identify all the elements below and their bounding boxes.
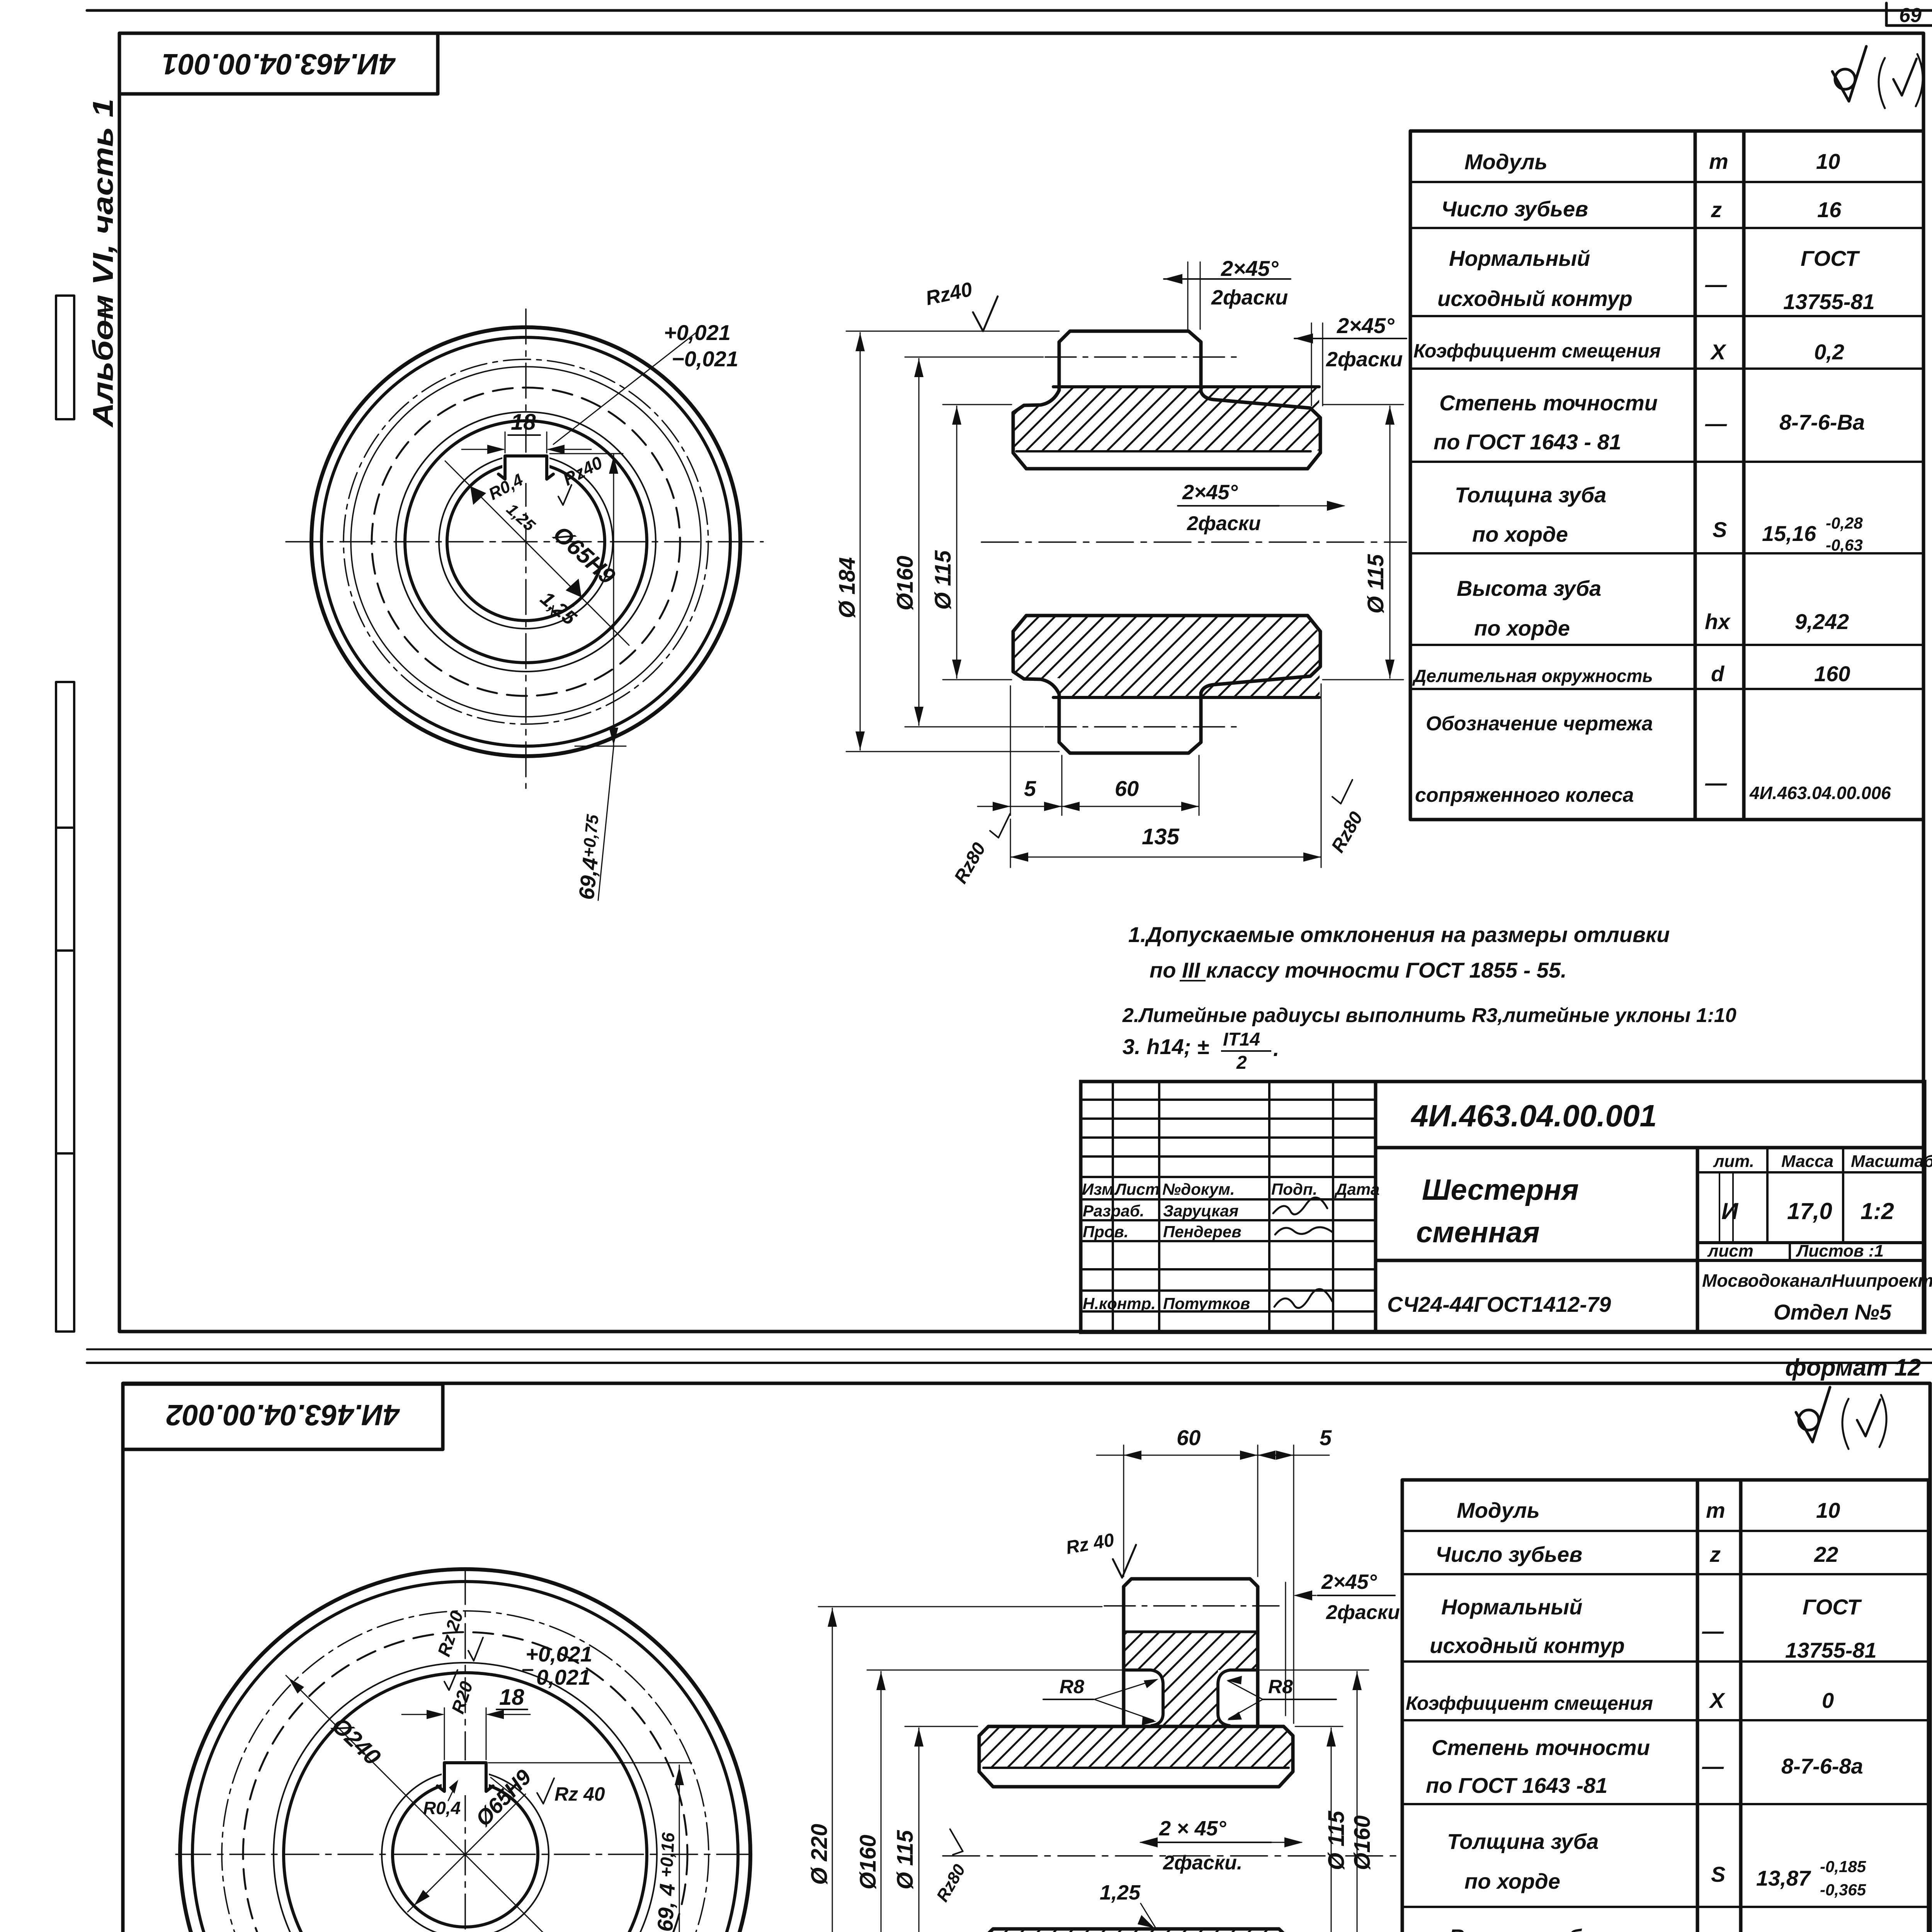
sheet1 name cell: [1376, 1259, 1697, 1262]
svg-text:z: z: [1709, 1542, 1721, 1566]
svg-text:IT14: IT14: [1223, 1029, 1260, 1050]
svg-text:m: m: [1706, 1498, 1725, 1522]
svg-text:18: 18: [511, 410, 536, 435]
gear1 tip circle inner edge: [321, 337, 730, 746]
gear1 tip circle outer: [311, 327, 740, 756]
gear1 front view horizontal centerline: [286, 541, 763, 543]
svg-text:X: X: [1710, 340, 1727, 364]
svg-text:+0,021: +0,021: [526, 1642, 592, 1666]
svg-text:Ø 115: Ø 115: [1363, 554, 1388, 614]
sheet1 left margin upper box: [56, 296, 74, 419]
gear1 section upper hatch: [1014, 388, 1319, 451]
svg-text:z: z: [1711, 197, 1722, 222]
svg-text:-0,185: -0,185: [1820, 1857, 1866, 1876]
gear1 section lower root line: [1053, 696, 1319, 699]
svg-text:Делительная окружность: Делительная окружность: [1412, 666, 1653, 686]
svg-text:Альбом VI, часть 1: Альбом VI, часть 1: [87, 99, 119, 428]
gear1 section lower outline: [1013, 616, 1320, 753]
gear2 keyway dim arrows: [402, 1714, 443, 1715]
svg-text:18: 18: [499, 1685, 524, 1710]
svg-text:2.Литейные радиусы выполнить R: 2.Литейные радиусы выполнить R3,литейные…: [1122, 1004, 1736, 1027]
svg-text:160: 160: [1814, 662, 1850, 686]
svg-text:сопряженного колеса: сопряженного колеса: [1415, 784, 1634, 806]
svg-text:−0,021: −0,021: [672, 347, 738, 371]
gear2 bore diagonal dim: [408, 1794, 526, 1912]
svg-text:5: 5: [1320, 1425, 1332, 1450]
svg-text:—: —: [1705, 272, 1727, 296]
gear1 tolerance leader: [553, 333, 696, 444]
svg-text:Коэффициент смещения: Коэффициент смещения: [1406, 1692, 1653, 1714]
svg-text:Высота зуба: Высота зуба: [1449, 1925, 1594, 1932]
svg-text:0: 0: [1822, 1688, 1834, 1713]
svg-text:m: m: [1709, 149, 1728, 173]
svg-text:60: 60: [1177, 1425, 1201, 1450]
sheet 2 frame: [123, 1383, 1930, 1932]
svg-text:hx: hx: [1705, 609, 1731, 634]
svg-text:22: 22: [1814, 1542, 1838, 1566]
svg-text:сменная: сменная: [1416, 1216, 1540, 1249]
svg-text:формат 12: формат 12: [1785, 1354, 1921, 1381]
svg-text:10: 10: [1816, 149, 1840, 173]
svg-text:+0,021: +0,021: [664, 320, 731, 345]
svg-text:135: 135: [1142, 824, 1180, 849]
sheet 1 frame: [119, 33, 1923, 1332]
sheet1 left margin box column: [56, 682, 74, 1332]
svg-text:Н.контр.: Н.контр.: [1083, 1294, 1156, 1313]
svg-text:исходный контур: исходный контур: [1430, 1633, 1625, 1658]
svg-text:ГОСТ: ГОСТ: [1801, 246, 1861, 270]
gear1 dia115 left dim: [956, 406, 957, 678]
svg-text:Подп.: Подп.: [1271, 1180, 1317, 1198]
gear1 root circle (dashed): [372, 388, 680, 696]
gear1 thin circle: [351, 367, 701, 717]
gear2 width dims 60 and 5: [1123, 1445, 1124, 1577]
svg-text:Ø160: Ø160: [855, 1835, 881, 1889]
svg-text:И: И: [1721, 1198, 1739, 1224]
sheet1 title block signature texts: [1082, 1180, 1379, 1313]
svg-text:16: 16: [1817, 197, 1842, 222]
svg-text:по III классу точности ГОСТ: по III классу точности ГОСТ 1855 - 55.: [1150, 958, 1567, 982]
svg-text:13755-81: 13755-81: [1783, 289, 1875, 314]
sheet1 parameter table grid: [1410, 131, 1923, 820]
svg-text:Ø160: Ø160: [1350, 1815, 1375, 1870]
sheet2 table symbol column: [1702, 1498, 1730, 1932]
gear2 section lower hub outline: [979, 1929, 1293, 1932]
sheet1 format caption: [87, 1349, 1932, 1350]
gear2 section axis centerline: [943, 1855, 1403, 1857]
svg-text:0,2: 0,2: [1814, 340, 1844, 364]
gear2 front view vertical centerline: [464, 1570, 466, 1932]
gear2 pitch circle (dash-dot): [222, 1611, 709, 1932]
svg-text:Масштаб: Масштаб: [1851, 1152, 1932, 1171]
svg-text:№докум.: №докум.: [1162, 1180, 1235, 1198]
svg-text:Ø 115: Ø 115: [1324, 1811, 1349, 1870]
sheet1 right part of title block: [1697, 1148, 1925, 1260]
gear1 section upper outline: [1013, 331, 1320, 469]
svg-text:1:2: 1:2: [1861, 1198, 1894, 1224]
svg-text:Модуль: Модуль: [1457, 1498, 1540, 1522]
svg-text:5: 5: [1024, 776, 1036, 801]
svg-text:Коэффициент смещения: Коэффициент смещения: [1413, 340, 1661, 362]
svg-text:по хорде: по хорде: [1474, 616, 1570, 640]
svg-text:69: 69: [1899, 4, 1922, 27]
gear2 dia220 dim: [832, 1608, 833, 1932]
svg-text:Ø 220: Ø 220: [807, 1824, 832, 1885]
svg-text:9,242: 9,242: [1795, 609, 1849, 634]
svg-text:2×45°: 2×45°: [1321, 1570, 1377, 1594]
svg-text:Пров.: Пров.: [1083, 1223, 1129, 1241]
svg-text:2 × 45°: 2 × 45°: [1159, 1817, 1226, 1840]
gear1 section lower pitch line: [1045, 726, 1238, 728]
svg-text:1,25: 1,25: [1100, 1881, 1141, 1904]
gear2 tip circle outer: [180, 1569, 750, 1932]
svg-text:Ø 115: Ø 115: [930, 550, 956, 610]
svg-text:Дата: Дата: [1334, 1180, 1379, 1198]
svg-text:Пендерев: Пендерев: [1163, 1223, 1242, 1241]
gear1 keyway outline: [498, 456, 553, 479]
svg-text:Масса: Масса: [1781, 1152, 1833, 1171]
sheet1 title block left grid verticals: [1081, 1082, 1376, 1332]
svg-text:4И.463.04.00.001: 4И.463.04.00.001: [162, 48, 396, 80]
svg-text:2×45°: 2×45°: [1337, 313, 1395, 338]
svg-text:0,021: 0,021: [536, 1665, 590, 1689]
gear1 bore circle: [447, 463, 605, 621]
gear2 dia160 right dim: [1357, 1672, 1358, 1932]
gear1 dia184 dim: [860, 333, 861, 750]
album caption underline: [104, 299, 106, 333]
sheet1 title block outer: [1081, 1082, 1925, 1332]
svg-text:-0,63: -0,63: [1826, 536, 1863, 554]
svg-text:по хорде: по хорде: [1472, 522, 1568, 546]
gear1 dia115 right dim: [1389, 406, 1391, 678]
svg-text:4И.463.04.00.001: 4И.463.04.00.001: [1410, 1099, 1657, 1133]
svg-text:Rz 40: Rz 40: [554, 1783, 605, 1805]
svg-text:Высота зуба: Высота зуба: [1457, 576, 1601, 600]
gear2 bore chamfer circle: [382, 1771, 549, 1932]
gear2 dia115 left dim: [918, 1728, 920, 1932]
sheet1 table values: [1749, 149, 1891, 803]
svg-text:2×45°: 2×45°: [1221, 256, 1279, 281]
svg-text:Обозначение чертежа: Обозначение чертежа: [1426, 713, 1653, 735]
gear2 keyway depth dim: [679, 1765, 680, 1932]
svg-text:по ГОСТ 1643 -81: по ГОСТ 1643 -81: [1426, 1773, 1607, 1798]
svg-text:8-7-6-Ва: 8-7-6-Ва: [1779, 410, 1865, 434]
svg-text:Толщина зуба: Толщина зуба: [1447, 1829, 1599, 1854]
svg-text:3. h14; ±: 3. h14; ±: [1122, 1034, 1209, 1059]
gear1 hub circle: [405, 421, 647, 663]
svg-text:2фаски: 2фаски: [1326, 1601, 1400, 1624]
svg-text:—: —: [1705, 411, 1727, 435]
gear1 section lower hatch B: [1059, 678, 1320, 697]
gear2 root circle (dashed): [243, 1632, 687, 1932]
gear2 section keyway floor line: [983, 1767, 1289, 1769]
sheet2 paper top edge: [87, 1362, 1932, 1364]
svg-text:Шестерня: Шестерня: [1422, 1173, 1579, 1206]
svg-text:13755-81: 13755-81: [1785, 1638, 1877, 1662]
svg-text:—: —: [1705, 770, 1727, 795]
sheet1 table row labels: [1412, 150, 1661, 806]
svg-text:Ø160: Ø160: [893, 556, 918, 611]
svg-text:1.Допускаемые отклонения на: 1.Допускаемые отклонения на размеры отли…: [1128, 922, 1670, 947]
svg-text:по ГОСТ 1643 - 81: по ГОСТ 1643 - 81: [1434, 430, 1621, 454]
svg-text:4И.463.04.00.002: 4И.463.04.00.002: [166, 1398, 400, 1431]
svg-text:2фаски: 2фаски: [1211, 286, 1288, 309]
svg-text:15,16: 15,16: [1762, 521, 1816, 546]
svg-text:Заруцкая: Заруцкая: [1163, 1202, 1238, 1220]
svg-text:ГОСТ: ГОСТ: [1803, 1595, 1862, 1619]
svg-text:2: 2: [1236, 1053, 1247, 1073]
gear2 section upper rim outline: [1124, 1579, 1258, 1726]
gear2 tip circle inner edge: [192, 1582, 738, 1932]
gear1 section upper pitch line: [1045, 356, 1238, 358]
svg-text:—: —: [1702, 1754, 1724, 1778]
gear2 section hub outline: [979, 1726, 1293, 1787]
svg-text:по хорде: по хорде: [1464, 1869, 1560, 1893]
svg-text:Число зубьев: Число зубьев: [1441, 197, 1588, 221]
svg-text:S: S: [1711, 1862, 1725, 1886]
svg-text:СЧ24-44ГОСТ1412-79: СЧ24-44ГОСТ1412-79: [1387, 1292, 1611, 1316]
svg-text:-0,365: -0,365: [1820, 1881, 1866, 1899]
gear2 keyway dim extension lines: [444, 1708, 445, 1760]
gear2 section hatches: [1124, 1633, 1258, 1670]
gear2 tip diameter diagonal dim: [286, 1675, 645, 1932]
gear1 section axis centerline: [981, 541, 1406, 543]
svg-text:10: 10: [1816, 1498, 1840, 1522]
gear2 web circle: [284, 1673, 647, 1932]
gear1 section upper root line: [1053, 385, 1319, 388]
svg-text:17,0: 17,0: [1787, 1198, 1832, 1224]
svg-text:4И.463.04.00.006: 4И.463.04.00.006: [1749, 783, 1891, 803]
svg-text:Степень точности: Степень точности: [1439, 391, 1658, 415]
svg-text:Ø 184: Ø 184: [835, 557, 860, 618]
gear2 web chamfer circle: [274, 1663, 657, 1932]
sheet2 parameter table grid: [1402, 1480, 1929, 1932]
gear2 section upper pitch line: [1104, 1605, 1279, 1607]
gear1 pitch circle (dash-dot): [344, 359, 708, 724]
svg-text:2фаски: 2фаски: [1326, 348, 1403, 371]
gear1 section keyway floor line: [1016, 450, 1311, 452]
svg-text:Нормальный: Нормальный: [1441, 1595, 1582, 1619]
svg-text:Нормальный: Нормальный: [1449, 246, 1590, 270]
gear2 bore circle: [393, 1782, 538, 1927]
sheet1 surface finish symbol: [1832, 46, 1923, 108]
gear1 keyway depth leader tail: [598, 747, 614, 900]
svg-text:лит.: лит.: [1713, 1152, 1754, 1171]
paper top edge: [87, 9, 1932, 12]
svg-text:лист: лист: [1707, 1242, 1753, 1260]
gear2 keyway outline: [437, 1763, 493, 1791]
sheet2 table values: [1748, 1498, 1884, 1932]
sheet 1 stamp box: [119, 33, 438, 94]
gear2 dia115 right dim: [1331, 1728, 1332, 1932]
svg-text:-0,28: -0,28: [1826, 514, 1863, 532]
gear1 bore diagonal dimension line: [445, 461, 629, 645]
svg-text:Модуль: Модуль: [1464, 150, 1548, 174]
gear1 keyway blankout: [502, 453, 549, 483]
gear2 dia160 left dim: [881, 1672, 882, 1932]
gear1 hub chamfer circle: [396, 412, 656, 672]
gear1 width dims 5 and 60: [1010, 686, 1011, 815]
gear1 bore chamfer circle: [439, 455, 613, 629]
svg-text:R8: R8: [1060, 1676, 1084, 1697]
svg-text:—: —: [1702, 1619, 1724, 1643]
gear2 section upper rim bore lines and pockets: [1125, 1670, 1163, 1726]
svg-text:8-7-6-8а: 8-7-6-8а: [1781, 1754, 1863, 1778]
svg-text:13,87: 13,87: [1756, 1866, 1811, 1890]
svg-text:исходный контур: исходный контур: [1437, 286, 1633, 311]
svg-text:Толщина зуба: Толщина зуба: [1455, 483, 1606, 507]
svg-text:Листов :1: Листов :1: [1796, 1242, 1884, 1260]
svg-text:S: S: [1713, 517, 1727, 542]
svg-text:МосводоканалНиипроект: МосводоканалНиипроект: [1702, 1270, 1932, 1291]
svg-text:2фаски: 2фаски: [1187, 512, 1261, 535]
sheet1 table symbol column: [1705, 149, 1731, 795]
svg-text:2×45°: 2×45°: [1182, 481, 1238, 504]
svg-text:R8: R8: [1268, 1676, 1293, 1697]
sheet1 signature squiggles: [1273, 1197, 1327, 1214]
svg-text:60: 60: [1115, 776, 1139, 801]
svg-text:Лист: Лист: [1114, 1180, 1160, 1198]
svg-text:Изм: Изм: [1082, 1180, 1114, 1198]
page number box 69: [1886, 3, 1932, 26]
svg-text:.: .: [1273, 1036, 1279, 1061]
gear1 keyway depth dim line: [613, 454, 614, 747]
gear1 section lower hatch A: [1014, 617, 1320, 678]
svg-text:Степень точности: Степень точности: [1432, 1735, 1650, 1760]
sheet2 surface finish symbol: [1796, 1387, 1886, 1449]
gear1 width dim 135: [1010, 819, 1011, 867]
svg-text:X: X: [1709, 1688, 1726, 1713]
svg-text:Разраб.: Разраб.: [1083, 1202, 1145, 1220]
sheet2 table row labels: [1404, 1498, 1653, 1932]
gear2 section upper root line: [1124, 1631, 1258, 1633]
svg-text:Потутков: Потутков: [1163, 1294, 1250, 1313]
sheet 2 stamp box: [123, 1384, 443, 1449]
gear2 keyway blankout: [442, 1760, 489, 1795]
gear2 front view horizontal centerline: [176, 1854, 752, 1855]
gear1 front view vertical centerline: [525, 309, 527, 788]
svg-text:2фаски.: 2фаски.: [1163, 1852, 1242, 1874]
svg-text:Ø 115: Ø 115: [893, 1830, 918, 1889]
gear1 keyway dim extension lines: [505, 432, 506, 453]
svg-text:R0,4: R0,4: [423, 1798, 461, 1818]
sheet1 doc number cell: [1376, 1146, 1925, 1150]
svg-text:Отдел №5: Отдел №5: [1774, 1300, 1892, 1324]
svg-text:Число зубьев: Число зубьев: [1435, 1542, 1582, 1566]
svg-text:d: d: [1711, 662, 1725, 686]
gear1 dia160 dim: [918, 359, 920, 725]
gear1 keyway dim arrows: [462, 449, 503, 450]
